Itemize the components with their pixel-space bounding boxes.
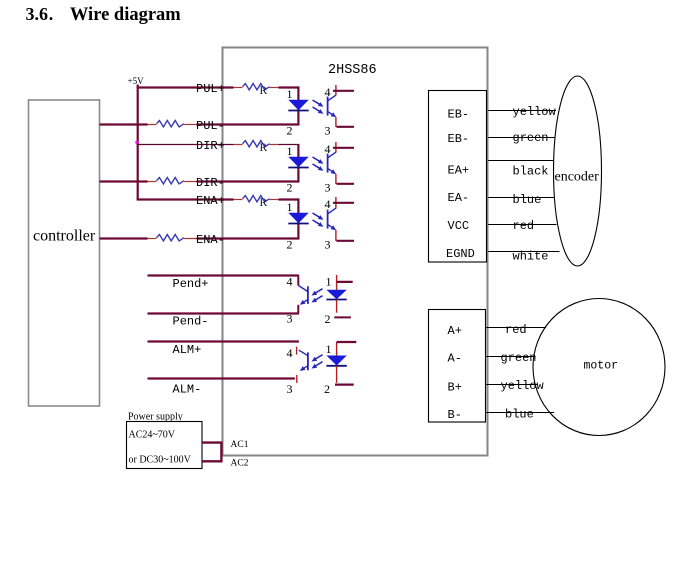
optocoupler U3 LED [288,213,308,224]
encoder terminal block [429,91,487,263]
resistor R2 (DIR+) [243,141,270,147]
svg-text:AC1: AC1 [231,440,249,450]
wire resistor R1 left lead [234,87,243,89]
wire ALM+ [148,340,299,342]
wire U5 emitter stub (red) [296,375,298,383]
svg-text:ENA+: ENA+ [196,194,225,208]
svg-text:green: green [513,131,549,145]
svg-text:motor: motor [584,360,619,373]
wire series resistor left lead (DIR-) [148,181,157,183]
wire resistor R2 left lead [234,144,243,146]
svg-text:1: 1 [287,87,293,101]
svg-text:AC24~70V: AC24~70V [129,430,176,441]
optocoupler U5 phototransistor [307,352,309,370]
svg-text:R: R [260,142,268,154]
svg-text:EA+: EA+ [448,163,470,177]
wire ENA- from controller [100,237,148,239]
wire VCC to encoder (red) [488,224,557,226]
wire series resistor right lead (DIR-) [184,181,197,183]
svg-text:+5V: +5V [128,76,145,86]
svg-text:ALM-: ALM- [173,383,202,397]
wire ENA+ from +5V rail [137,198,234,200]
svg-text:1: 1 [326,342,332,356]
svg-text:3: 3 [325,180,331,194]
resistor R1 (PUL+) [243,84,270,90]
wire U1 collector stub (red) [335,85,337,95]
svg-text:4: 4 [287,346,293,360]
svg-text:red: red [513,219,535,233]
controller box [29,100,100,406]
wire Pend- [148,312,299,314]
wire U4 LED anode stub (red) [336,275,338,290]
svg-text:Pend+: Pend+ [173,277,209,291]
wire DIR- to opto pin 2 [197,180,300,182]
encoder symbol (ellipse) [554,76,602,266]
svg-text:EGND: EGND [446,247,475,261]
wire EGND to encoder (white) [488,251,560,253]
optocoupler U4 phototransistor [307,286,309,304]
wire U4 emitter corner to Pend- [297,305,299,314]
wire U2 collector stub (red) [335,142,337,152]
svg-text:white: white [513,249,549,263]
wire EA- to encoder (blue) [488,197,555,199]
svg-text:controller: controller [33,228,96,245]
node +5V/DIR+ junction dot [135,141,138,144]
svg-text:DIR-: DIR- [196,176,225,190]
svg-text:2: 2 [324,382,330,396]
wire PUL+ from +5V rail [137,86,234,88]
optocoupler U3 phototransistor [327,210,329,229]
wire B+ to motor (yellow) [486,384,538,386]
wire Pend+ [148,274,299,276]
wire pin 3 stub (U1) [337,126,355,128]
svg-text:yellow: yellow [501,379,545,393]
driver box 2HSS86 outline [223,48,488,456]
motor terminal block [429,310,486,423]
svg-text:ALM+: ALM+ [173,343,202,357]
wire resistor R2 right lead [270,144,279,146]
svg-text:AC2: AC2 [231,458,249,468]
wire EB- to encoder (yellow) [488,110,556,112]
svg-text:3: 3 [325,237,331,251]
svg-text:4: 4 [287,275,293,289]
svg-text:VCC: VCC [448,219,470,233]
svg-text:black: black [513,165,549,179]
svg-text:.: . [49,4,54,24]
svg-text:4: 4 [325,85,331,99]
wire opto U1 anode-cathode vertical [297,88,299,125]
wire ENA- to opto pin 2 [197,237,300,239]
optocoupler U1 LED [288,100,308,111]
wire series resistor right lead (ENA-) [184,238,197,240]
svg-text:R: R [260,197,268,209]
wire B- to motor (blue) [486,412,554,414]
optocoupler U2 LED [288,157,308,168]
wire PUL- from controller [100,123,148,125]
svg-text:ENA-: ENA- [196,233,225,247]
wire pin 2 stub (U4) [334,316,351,318]
svg-text:2: 2 [287,180,293,194]
optocoupler U1 phototransistor [327,97,329,116]
svg-text:EB-: EB- [448,107,470,121]
svg-text:yellow: yellow [513,105,557,119]
svg-text:2: 2 [287,123,293,137]
svg-text:1: 1 [287,200,293,214]
wire U4 LED cathode stub (red) [336,300,338,313]
svg-text:red: red [505,323,527,337]
svg-text:PUL-: PUL- [196,119,225,133]
wire pin 4 stub (U1) [333,90,354,92]
svg-text:Power supply: Power supply [128,411,183,422]
wire opto U3 anode-cathode vertical [297,200,299,239]
wire resistor R3 right lead [270,199,279,201]
optocoupler U1 light arrows [313,100,322,105]
svg-text:3: 3 [287,382,293,396]
wire EB- to encoder (green) [488,137,556,139]
wire U2 emitter stub (red) [335,174,337,184]
optocoupler U3 light arrows [313,213,322,218]
wire PUL+ to opto pin 1 [279,86,300,88]
resistor series (PUL- row) [157,121,185,127]
wire +5V rail vertical [137,85,139,200]
wire DIR- from controller [100,180,148,182]
svg-text:EB-: EB- [448,132,470,146]
svg-text:1: 1 [287,144,293,158]
svg-text:4: 4 [325,142,331,156]
optocoupler U5 light arrows [314,355,323,360]
wire pin 3 stub (U3) [337,240,355,242]
wire opto U2 anode-cathode vertical [297,145,299,182]
wire EA+ to encoder (black) [488,160,554,162]
wire pin 1 stub (U4) [337,281,353,283]
wire pin 2 stub (U5) [335,384,354,386]
wire U1 emitter stub (red) [335,117,337,127]
wire ENA+ to opto pin 1 [279,198,300,200]
power supply box [127,422,203,469]
wire DIR+ to opto pin 1 [279,144,300,146]
wire U5 LED anode stub (red) [336,342,338,356]
svg-text:Wire diagram: Wire diagram [70,5,181,25]
svg-text:R: R [260,85,268,97]
wire resistor R1 right lead [270,87,279,89]
wire A- to motor (green) [486,356,536,358]
svg-text:DIR+: DIR+ [196,139,225,153]
wire pin 4 stub (U3) [333,202,354,204]
svg-text:2HSS86: 2HSS86 [328,63,377,78]
wire A+ to motor (red) [486,327,546,329]
resistor series (DIR- row) [157,178,185,184]
svg-text:2: 2 [325,312,331,326]
optocoupler U2 phototransistor [327,154,329,173]
wire PUL- to opto pin 2 [197,123,300,125]
wire U3 collector stub (red) [335,197,337,208]
optocoupler U4 light arrows [314,289,323,294]
svg-text:blue: blue [513,193,542,207]
wire DIR+ from +5V rail [137,144,234,146]
wire pin 3 stub (U2) [337,183,355,185]
svg-text:blue: blue [505,407,534,421]
svg-text:3: 3 [287,312,293,326]
wire power supply to AC1/AC2 bracket [202,443,221,462]
wire U4 collector corner [297,276,299,286]
svg-text:3: 3 [325,123,331,137]
resistor R3 (ENA+) [243,196,270,202]
wire series resistor left lead (ENA-) [148,238,157,240]
resistor series (ENA- row) [157,235,185,241]
svg-text:A+: A+ [448,324,462,338]
svg-text:EA-: EA- [448,191,470,205]
wire U5 collector stub (red) [296,347,298,355]
svg-text:green: green [501,351,537,365]
wire pin 1 stub (U5) [337,341,357,343]
svg-text:or DC30~100V: or DC30~100V [129,454,192,465]
svg-text:4: 4 [325,197,331,211]
svg-text:1: 1 [326,275,332,289]
wire series resistor right lead (PUL-) [184,124,197,126]
optocoupler U2 light arrows [313,157,322,162]
wire series resistor left lead (PUL-) [148,124,157,126]
optocoupler U4 LED [326,290,346,299]
svg-text:Pend-: Pend- [173,315,209,329]
optocoupler U5 LED [326,356,346,366]
svg-text:B-: B- [448,408,462,422]
wire U3 emitter stub (red) [335,230,337,241]
svg-text:A-: A- [448,352,462,366]
wire U5 LED cathode stub (red) [336,366,338,383]
svg-text:B+: B+ [448,381,462,395]
svg-text:encoder: encoder [555,170,600,185]
svg-text:3.6: 3.6 [26,4,49,24]
motor symbol (circle) [533,299,665,436]
wire resistor R3 left lead [234,199,243,201]
svg-text:PUL+: PUL+ [196,82,225,96]
svg-text:2: 2 [287,237,293,251]
wire pin 4 stub (U2) [333,147,354,149]
wire ALM- [148,377,295,379]
